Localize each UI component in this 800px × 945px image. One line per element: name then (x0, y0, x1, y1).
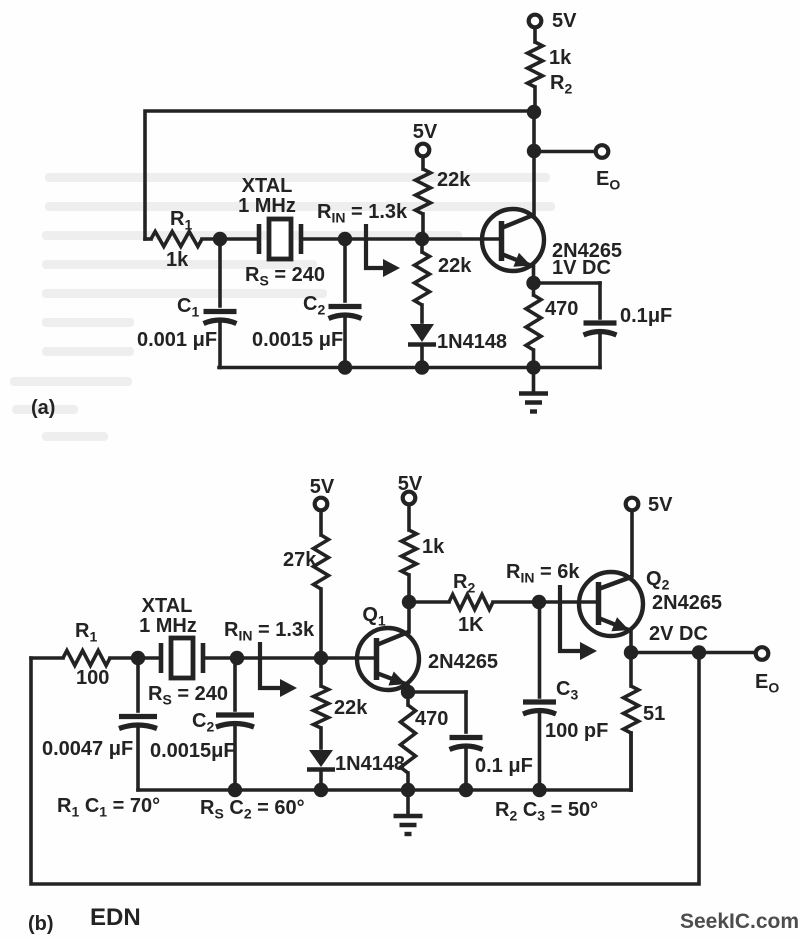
wire collector Q1 (407, 602, 411, 632)
ground (a) (532, 368, 536, 393)
node collector/loop junction (527, 105, 541, 119)
wire node to 470 (532, 283, 536, 295)
wire 22k to diode (420, 305, 424, 322)
svg-text:470: 470 (545, 298, 578, 320)
wire 5V to R2 (533, 29, 537, 42)
resistor R2 (a) 1k (528, 42, 543, 87)
wire 27k to node (319, 589, 323, 658)
node junction R1/XTAL/C1 (213, 232, 227, 246)
node collector junction Q1 (402, 595, 416, 609)
wire node to C2 (b) (233, 658, 237, 710)
node junction R1/XTAL/C1 (b) (131, 651, 145, 665)
svg-text:5V: 5V (552, 10, 577, 32)
svg-text:1 MHz: 1 MHz (139, 615, 197, 637)
wire 5V to 27k (319, 512, 323, 535)
node output junction (527, 144, 541, 158)
wire emitter Q1 (406, 685, 410, 692)
svg-text:XTAL: XTAL (142, 595, 193, 617)
resistor 27k (b) (314, 535, 329, 589)
wire node to R2 (b) (409, 600, 449, 604)
wire node to XTAL (220, 237, 259, 241)
node junction divider (b) (314, 651, 328, 665)
svg-text:22k: 22k (334, 697, 368, 719)
resistor 1k (b) (402, 530, 417, 575)
node rail ground (526, 360, 540, 374)
wire 22k to diode (b) (319, 728, 323, 748)
wire C2 to rail (343, 319, 347, 368)
svg-text:1V DC: 1V DC (552, 257, 611, 279)
wire node to base Q(a) (345, 237, 499, 241)
svg-text:0.1μF: 0.1μF (620, 305, 672, 327)
wire node to base Q1 (237, 656, 374, 660)
wire 5V to 1k (b) (407, 506, 411, 530)
node emitter junction Q2 (624, 645, 638, 659)
wire cap top lead (598, 283, 602, 318)
svg-text:RIN = 1.3k: RIN = 1.3k (224, 619, 315, 644)
transistor Q2 2N4265 (b) (579, 572, 643, 636)
svg-text:1N4148: 1N4148 (335, 753, 405, 775)
wire node to C2 (343, 239, 347, 301)
diode 1N4148 (b) (309, 750, 333, 767)
wire emitter to loop (631, 651, 699, 655)
svg-text:EDN: EDN (90, 904, 141, 931)
wire node to C3 (538, 602, 542, 697)
node rail diode (415, 360, 429, 374)
node junction XTAL/C2 (b) (230, 651, 244, 665)
svg-text:1k: 1k (422, 536, 445, 558)
wire node to cap (534, 281, 601, 285)
wire node to 22k (b) (319, 658, 323, 686)
ground (b) (406, 790, 410, 815)
wire cap top lead (b) (464, 692, 468, 732)
svg-text:2V DC: 2V DC (649, 623, 708, 645)
svg-text:0.001 μF: 0.001 μF (137, 329, 217, 351)
wire to R1 (b) (31, 656, 63, 660)
svg-text:SeekIC.com: SeekIC.com (680, 910, 799, 933)
wire 1k to node (b) (407, 575, 411, 602)
wire node to XTAL (b) (138, 656, 161, 660)
svg-text:1k: 1k (166, 249, 189, 271)
resistor R1 (b) 100 (63, 651, 110, 666)
node rail 470 (b) (401, 783, 415, 797)
wire bottom rail (a) (219, 366, 600, 370)
wire 51 to rail corner (629, 733, 633, 790)
svg-text:0.0015 μF: 0.0015 μF (252, 329, 343, 351)
svg-text:27k: 27k (283, 549, 317, 571)
resistor R1 (a) 1k (151, 232, 202, 247)
svg-text:2N4265: 2N4265 (428, 651, 498, 673)
wire node to 22k (420, 239, 424, 252)
node junction divider (a) (415, 232, 429, 246)
impedance arrow (b) input (260, 642, 281, 688)
svg-text:1N4148: 1N4148 (437, 331, 507, 353)
svg-text:1 MHz: 1 MHz (238, 195, 296, 217)
wire XTAL to node (b) (203, 656, 237, 660)
svg-text:22k: 22k (437, 169, 471, 191)
wire diode to rail (420, 346, 424, 368)
wire R1 to node (b) (110, 656, 138, 660)
resistor 22k upper (a) (416, 169, 431, 214)
wire C1 to rail (b) (136, 729, 140, 790)
transistor Q1 2N4265 (b) (357, 628, 419, 690)
svg-text:RS = 240: RS = 240 (148, 683, 228, 708)
svg-text:51: 51 (643, 703, 665, 725)
wire node to C1 (218, 239, 222, 306)
wire R2 to node (533, 87, 537, 112)
wire top loop (145, 111, 534, 239)
diode 1N4148 (a) (410, 324, 434, 342)
svg-text:1K: 1K (458, 614, 484, 636)
svg-text:470: 470 (415, 708, 448, 730)
svg-text:XTAL: XTAL (242, 175, 293, 197)
node rail cap (b) (459, 783, 473, 797)
node rail C2 (b) (228, 783, 242, 797)
svg-text:RIN = 6k: RIN = 6k (506, 561, 580, 586)
svg-text:100 pF: 100 pF (545, 720, 608, 742)
wire C2 to rail (b) (233, 727, 237, 790)
wire outer loop (31, 653, 699, 885)
impedance arrow (b) interstage (560, 585, 581, 651)
wire diode to rail (b) (319, 771, 323, 790)
svg-text:(b): (b) (28, 913, 54, 935)
node rail diode (b) (314, 783, 328, 797)
wire emitter Q2 (629, 631, 633, 653)
wire 5V to 22k (421, 158, 425, 169)
power terminal 5V (b) Q2 (626, 498, 639, 511)
faint scan bleed-through (10, 173, 555, 441)
wire to EO (b) (699, 651, 754, 655)
node output junction (b) (692, 645, 706, 659)
power terminal 5V (b) 1k (403, 492, 416, 505)
wire cap to rail (598, 335, 602, 368)
impedance arrow (a) (366, 224, 384, 268)
wire node to cap (b) (408, 690, 466, 694)
wire 470 to rail (b) (406, 773, 410, 790)
node rail C3 (b) (532, 783, 546, 797)
svg-text:5V: 5V (310, 476, 335, 498)
wire node to 51 (629, 653, 633, 687)
svg-text:100: 100 (76, 667, 109, 689)
svg-text:5V: 5V (413, 121, 438, 143)
svg-text:0.1 μF: 0.1 μF (475, 755, 533, 777)
wire XTAL to node (301, 237, 345, 241)
svg-text:5V: 5V (648, 494, 673, 516)
wire collector Q2 (630, 511, 634, 576)
wire C3 to rail (538, 714, 542, 790)
node emitter junction (a) (526, 276, 540, 290)
wire R1 to node (202, 237, 220, 241)
wire 470 to rail (532, 350, 536, 368)
svg-text:2N4265: 2N4265 (652, 592, 722, 614)
node junction XTAL/C2 (338, 232, 352, 246)
wire node to 470 (b) (406, 692, 410, 705)
svg-text:22k: 22k (438, 255, 472, 277)
node rail C2 (338, 360, 352, 374)
wire R1 left lead (145, 237, 151, 241)
svg-text:0.0015μF: 0.0015μF (150, 740, 236, 762)
node emitter junction Q1 (401, 685, 415, 699)
wire emitter to node (532, 266, 536, 283)
svg-text:RIN = 1.3k: RIN = 1.3k (317, 201, 408, 226)
wire node to node (532, 112, 536, 151)
power terminal 5V (a) R2 (529, 15, 542, 28)
svg-text:(a): (a) (31, 397, 55, 419)
transistor 2N4265 (a) (482, 209, 544, 271)
node junction R2/C3 (532, 595, 546, 609)
wire C1 to rail (218, 324, 222, 368)
wire 22k to node (421, 214, 425, 239)
svg-text:0.0047 μF: 0.0047 μF (42, 738, 133, 760)
wire rail corner up (629, 733, 633, 790)
wire node to collector (532, 151, 536, 215)
power terminal 5V (b) 27k (315, 498, 328, 511)
svg-text:1k: 1k (549, 47, 572, 69)
svg-text:RS = 240: RS = 240 (245, 264, 325, 289)
wire R2 to base Q2 (493, 600, 596, 604)
wire node to C1 (b) (136, 658, 140, 711)
wire cap to rail (b) (464, 749, 468, 790)
wire bottom rail (b) (138, 788, 631, 792)
svg-text:5V: 5V (398, 473, 423, 495)
wire to EO (534, 150, 595, 154)
